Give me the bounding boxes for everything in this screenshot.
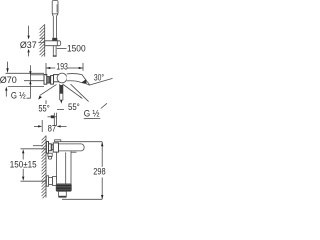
svg-text:G ½: G ½ <box>84 109 100 120</box>
svg-text:298: 298 <box>93 167 105 177</box>
svg-text:1500: 1500 <box>67 43 86 53</box>
svg-text:Ø37: Ø37 <box>20 40 37 50</box>
svg-text:30°: 30° <box>94 72 104 82</box>
svg-text:Ø70: Ø70 <box>0 75 17 85</box>
svg-text:G ½: G ½ <box>11 91 26 102</box>
svg-text:193: 193 <box>56 61 68 71</box>
svg-text:150±15: 150±15 <box>10 160 37 170</box>
svg-text:55°: 55° <box>68 102 80 112</box>
svg-text:55°: 55° <box>38 103 50 113</box>
svg-text:87: 87 <box>48 123 57 133</box>
